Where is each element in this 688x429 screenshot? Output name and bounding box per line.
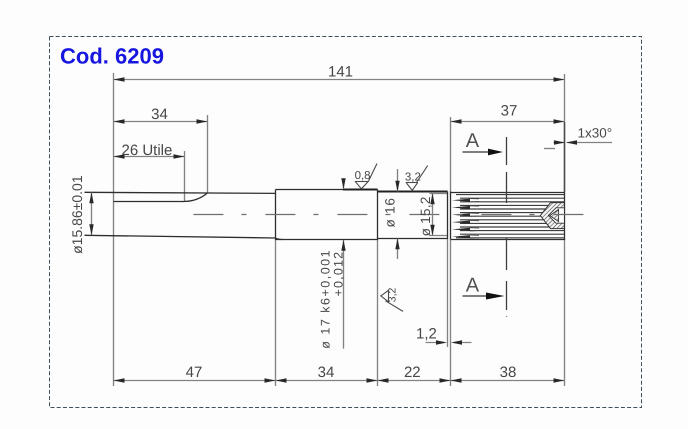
bottom edge jog at shoulder — [276, 238, 284, 240]
shoulder boundary x=377.5 — [377, 190, 379, 241]
svg-text:3,2: 3,2 — [387, 287, 399, 302]
wire: extension end face x=564.5 up and down — [564, 74, 566, 192]
svg-text:3,2: 3,2 — [405, 171, 421, 183]
dimension 37 — [451, 121, 565, 123]
dimension diameter 17 k6 — [343, 180, 345, 189]
collar right line — [450, 192, 452, 240]
roughness symbol 0.8 — [355, 164, 377, 189]
svg-text:34: 34 — [151, 106, 168, 123]
bottom dimension chain line — [114, 380, 565, 382]
svg-text:26 Utile: 26 Utile — [122, 142, 173, 159]
section arrow A top — [463, 151, 491, 153]
shaft end face — [564, 192, 566, 240]
svg-text:ø 17 k6+0,001: ø 17 k6+0,001 — [319, 249, 333, 349]
wire: left extension line x=113.5 — [113, 73, 115, 386]
wire: extension below collar left x=447.5 — [447, 239, 449, 347]
svg-text:141: 141 — [328, 64, 353, 81]
wire: extension collar right x=450.5 up and down — [450, 117, 452, 192]
shaft bottom edge left (taper) — [85, 235, 276, 238]
spline teeth lines — [456, 195, 565, 238]
wire: extension line x=207.5 (34 end) — [207, 115, 209, 193]
section d16 top edge — [378, 191, 448, 193]
section d16 bottom edge — [378, 238, 448, 240]
dimension 22 — [378, 378, 389, 382]
spline top edge — [451, 192, 565, 194]
svg-text:ø 16: ø 16 — [383, 197, 398, 227]
dimension 141 — [114, 79, 565, 81]
svg-text:37: 37 — [501, 103, 518, 120]
dimension 38 — [451, 378, 462, 382]
svg-text:ø 15,2: ø 15,2 — [418, 196, 433, 236]
svg-text:A: A — [466, 274, 480, 296]
shaft top edge left (taper) — [85, 192, 276, 193]
svg-text:ø15.86±0.01: ø15.86±0.01 — [69, 175, 85, 254]
shoulder boundary x=275.5 — [275, 190, 277, 241]
section arrow A bottom — [463, 295, 489, 297]
end chamfer small hatched arrow — [550, 209, 559, 221]
wire: extension below boundary x=377.5 — [377, 240, 379, 386]
dimension 26 Utile — [114, 156, 185, 158]
dimension 1,2 — [426, 342, 445, 344]
dimension 1x30 chamfer leader — [567, 142, 612, 144]
journal d17 top edge — [276, 189, 378, 191]
svg-text:1x30°: 1x30° — [578, 126, 613, 141]
drawing sheet dashed border — [50, 37, 642, 408]
dimension diameter 15.86 left — [91, 193, 93, 236]
svg-text:0,8: 0,8 — [355, 170, 371, 182]
dimension 34 bottom — [276, 378, 287, 382]
dimension diameter 16 — [397, 169, 399, 192]
centerline — [193, 214, 589, 216]
svg-text:Cod. 6209: Cod. 6209 — [60, 44, 164, 69]
dimension 47 — [114, 378, 125, 382]
dimension diameter 15.2 — [430, 193, 448, 195]
svg-text:+0,012: +0,012 — [332, 251, 346, 297]
spline bottom edge — [451, 239, 565, 241]
svg-text:1,2: 1,2 — [416, 325, 437, 342]
wire: extension line x=184.5 (26 utile end) — [184, 151, 186, 202]
roughness symbol 3.2 top — [406, 166, 428, 191]
collar left line — [447, 192, 449, 240]
svg-text:38: 38 — [500, 364, 517, 381]
wire: extension below boundary x=275.5 — [275, 240, 277, 386]
roughness symbol 3.2 rotated (shoulder) — [381, 290, 403, 312]
svg-text:47: 47 — [186, 364, 203, 381]
section cut line A-A — [506, 137, 508, 317]
journal d17 bottom edge — [276, 239, 378, 241]
svg-text:34: 34 — [318, 364, 335, 381]
end chamfer hatched cone outer — [540, 203, 564, 229]
shaft relief inner line + fillet — [114, 193, 208, 202]
spline teeth runout triangles — [452, 199, 470, 239]
dimension 34 top — [114, 121, 208, 123]
end chamfer inner white pentagon — [548, 208, 564, 223]
svg-text:A: A — [466, 130, 480, 152]
svg-text:22: 22 — [404, 364, 421, 381]
